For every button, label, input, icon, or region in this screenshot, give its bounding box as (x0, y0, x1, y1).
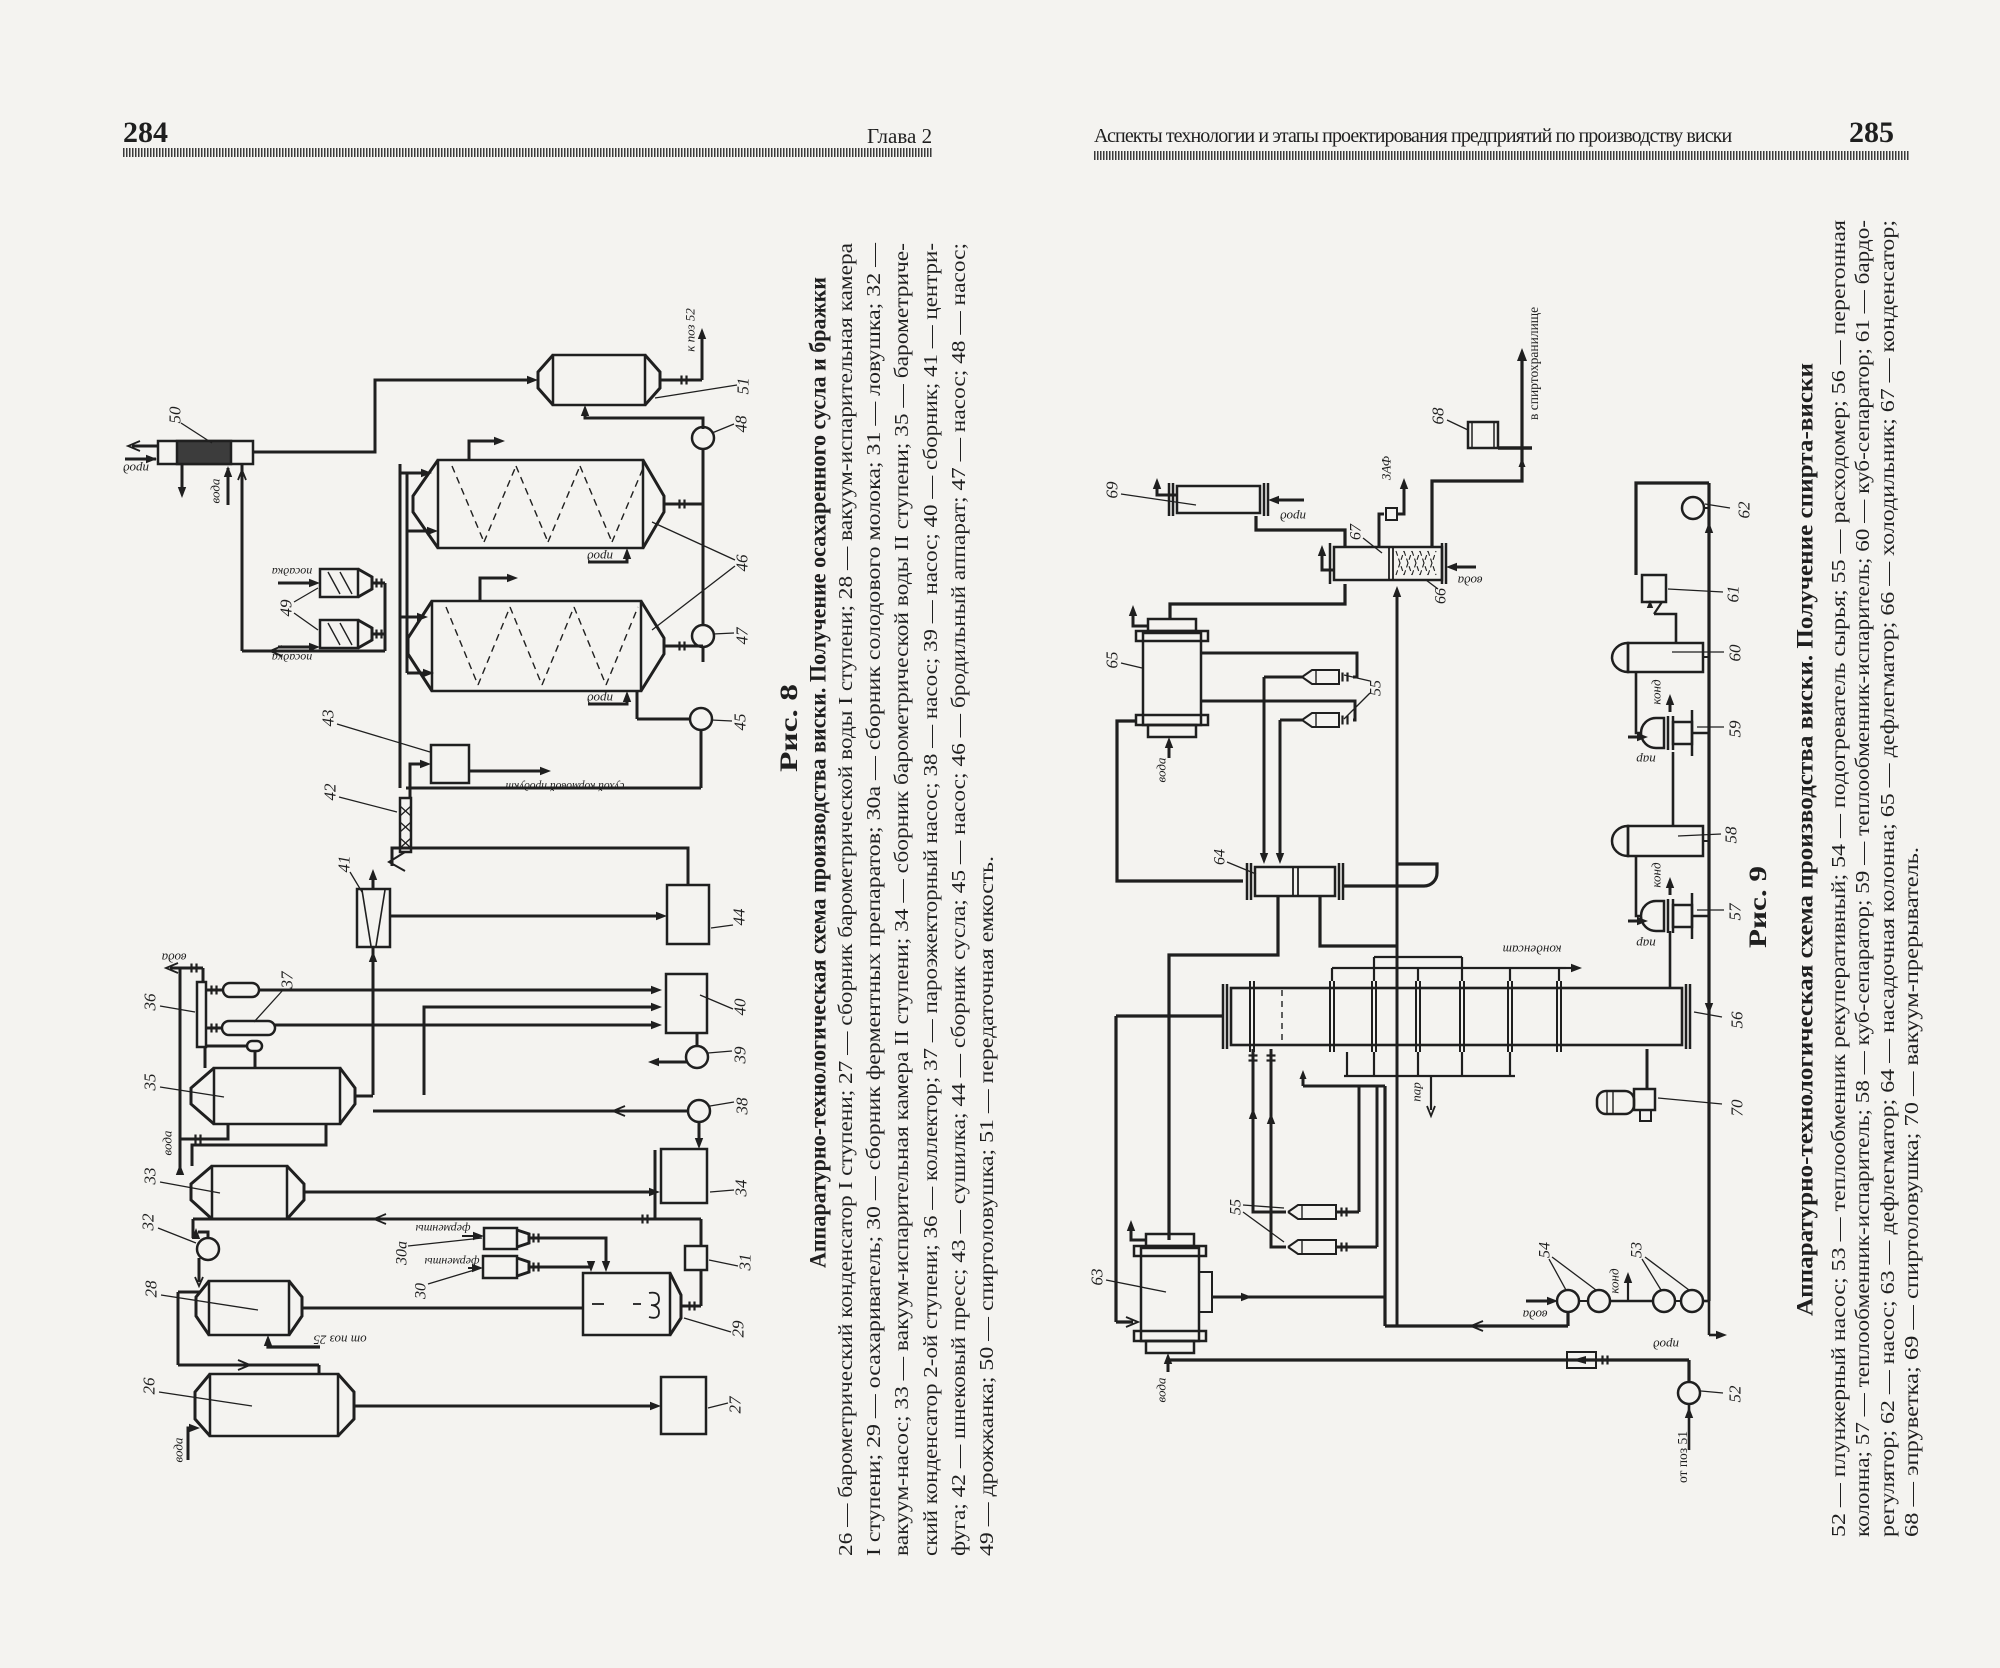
label 26 with leader (140, 1377, 253, 1406)
svg-text:53: 53 (1629, 1242, 1646, 1258)
svg-text:Рис. 9: Рис. 9 (1745, 866, 1772, 948)
meter outlets risers to reflux manifold (1300, 1070, 1386, 1252)
transfer vessel 51 (538, 355, 660, 405)
svg-text:40: 40 (731, 998, 750, 1016)
inlet line prod into 50 (125, 455, 157, 463)
label 45 with leader (711, 714, 750, 731)
label 35 with leader (141, 1074, 225, 1098)
outlet arrow to spirit storage (1517, 348, 1527, 448)
pump 47 (692, 625, 714, 647)
label 57 with leader (1697, 902, 1745, 921)
vent stub of upper drum 46 (469, 437, 505, 460)
enzyme label at 30a (416, 1222, 484, 1240)
svg-text:Рис. 8: Рис. 8 (776, 684, 803, 772)
wire 66 to test vessel 68 and to storage (1432, 448, 1526, 547)
label 27 with leader (708, 1395, 745, 1414)
dephlegmator 63 (1134, 1234, 1206, 1353)
vent arrow at top of 63 (1127, 1220, 1146, 1240)
sampling branch ZAF with valve (1379, 478, 1408, 547)
left manifold from 28 down to 26 (178, 1292, 319, 1374)
prod inlet of lower drum 46 (587, 691, 632, 707)
saccharifier 29 (583, 1273, 681, 1335)
svg-text:вода: вода (1522, 1308, 1547, 1323)
label 53 with leaders (1629, 1242, 1690, 1290)
wire 64 to dephlegmator 63 via riser (1169, 896, 1278, 1240)
svg-text:43: 43 (319, 710, 338, 727)
label 49 with leaders (277, 588, 319, 630)
svg-text:33: 33 (141, 1168, 160, 1186)
pump group 54 (1557, 1290, 1610, 1312)
svg-text:69: 69 (1103, 481, 1122, 499)
trap capsule 37 lower (205, 1021, 275, 1035)
page header right: page number 285 (1849, 116, 1894, 150)
reflux riser x1385 (1383, 1086, 1386, 1326)
wire vessel 35 outlet to riser (355, 1095, 373, 1098)
trap 31 (685, 1246, 707, 1270)
svg-text:52: 52 (1726, 1385, 1745, 1403)
wire upper drum 46 outlet to bus (664, 500, 703, 509)
pump 62 (1682, 497, 1713, 533)
label 39 with leader (708, 1046, 750, 1065)
enzyme dispenser 30 (483, 1256, 542, 1278)
drain of 35 to vessel 33 (192, 1124, 326, 1166)
wire 31 to transfer line (700, 1219, 703, 1246)
label 40 with leader (700, 995, 750, 1016)
water inlet arrow up into 50 (224, 466, 232, 505)
label 47 with leader (713, 626, 752, 645)
spirit trap 69 (1169, 483, 1268, 516)
dry feed product outlet of 43 (469, 767, 624, 793)
label 63 with leader (1088, 1269, 1167, 1293)
vacuum breaker 70 (1597, 1049, 1655, 1121)
wire 55a to 64 (1260, 677, 1302, 864)
svg-text:вакуум-насос; 33 — вакуум-испа: вакуум-насос; 33 — вакуум-испарительная … (891, 243, 913, 1556)
label 48 with leader (712, 415, 751, 433)
svg-text:26: 26 (140, 1377, 159, 1395)
svg-text:60: 60 (1726, 644, 1745, 662)
vacuum pump 32 (192, 1228, 219, 1286)
svg-text:56: 56 (1728, 1011, 1747, 1029)
fermenter 46 lower drum (408, 601, 664, 691)
wire lower drum 46 outlet to bus (664, 642, 703, 651)
svg-text:38: 38 (733, 1097, 752, 1116)
svg-text:29: 29 (729, 1320, 748, 1338)
inlet arrow into 69 right end (1268, 496, 1306, 525)
svg-text:63: 63 (1088, 1269, 1107, 1286)
right pump bus wire (637, 449, 703, 788)
stub from 41 up to press 42 (369, 869, 377, 889)
svg-text:вода: вода (208, 478, 223, 503)
svg-text:68: 68 (1429, 407, 1448, 425)
flow meter 55d (1288, 1240, 1336, 1254)
riser from column area up into 66 (1393, 586, 1401, 1326)
main product bus on the right (1705, 483, 1713, 1301)
still separator 58 (1612, 752, 1709, 856)
label 36 with leader (141, 993, 196, 1012)
yeast outlet bus to recycle line (384, 583, 387, 651)
svg-text:конденсат: конденсат (1503, 943, 1562, 958)
svg-text:Аппаратурно-технологическая сх: Аппаратурно-технологическая схема произв… (805, 277, 830, 1268)
outlet arrow left of 50 (128, 441, 158, 451)
vacuum chamber 33 (191, 1166, 304, 1219)
wire press 42 to dryer 43 (410, 760, 431, 798)
recycle line from fermenter area to 50 (242, 646, 385, 656)
svg-text:45: 45 (731, 714, 750, 731)
svg-text:конд: конд (1649, 679, 1664, 705)
label 60 with leader (1672, 644, 1745, 662)
svg-text:пар: пар (1636, 753, 1656, 768)
svg-text:55: 55 (1228, 1199, 1245, 1215)
water branch to vessel 35 (160, 1124, 229, 1155)
svg-text:35: 35 (141, 1074, 160, 1092)
stub 36 to vessel 35 (204, 1047, 207, 1068)
svg-text:42: 42 (321, 783, 340, 801)
wire 26 outlet to box 27 (354, 1402, 661, 1410)
label 55 upper pair with leaders (1344, 675, 1385, 719)
svg-text:47: 47 (733, 626, 752, 645)
packed column 64 (1247, 863, 1343, 900)
label 66 with leader (1426, 580, 1450, 604)
svg-text:вода: вода (171, 1437, 186, 1462)
label 70 with leader (1658, 1098, 1747, 1117)
svg-text:27: 27 (726, 1395, 745, 1414)
label 59 with leader (1697, 720, 1745, 738)
svg-text:конд: конд (1607, 1268, 1622, 1294)
wire pump 38 down into 34 (695, 1121, 703, 1149)
seed inlet into 49 lower (272, 643, 320, 665)
label 56 with leader (1694, 1011, 1747, 1029)
svg-text:в спиртохранилище: в спиртохранилище (1526, 307, 1541, 420)
label 32 with leader (139, 1213, 197, 1243)
svg-text:51: 51 (734, 378, 753, 395)
label 50 with leader (166, 406, 213, 443)
label 68 with leader (1429, 407, 1469, 430)
svg-text:48: 48 (732, 415, 751, 433)
transfer line under 34 (193, 1214, 701, 1224)
side box on 63 (1199, 1272, 1212, 1312)
svg-text:62: 62 (1735, 501, 1754, 519)
svg-text:пар: пар (1409, 1082, 1424, 1102)
column feed line down to preheater 63 (1116, 1016, 1223, 1327)
svg-text:ферменты: ферменты (425, 1255, 480, 1269)
wire 57 down into column 56 (1669, 931, 1672, 988)
svg-text:ферменты: ферменты (416, 1222, 471, 1236)
svg-text:31: 31 (736, 1254, 755, 1272)
svg-text:пар: пар (1636, 937, 1656, 952)
condenser 67 with cooler 66 (1330, 543, 1446, 584)
label 38 with leader (710, 1097, 752, 1116)
rotameter on bottom line (1567, 1352, 1608, 1368)
manifold inlet arrows into drums (400, 469, 438, 677)
drain arrow from pump 39 (648, 1058, 688, 1066)
svg-text:32: 32 (139, 1213, 158, 1232)
collector 36 feed from water main top (202, 968, 205, 982)
ejector fitting under 36 (205, 1041, 262, 1068)
pump group outlet to bus (1702, 1300, 1709, 1303)
label 42 with leader (321, 783, 398, 812)
svg-text:58: 58 (1722, 826, 1741, 844)
label 65 with leader (1103, 652, 1143, 669)
water main top outlet arrow (161, 951, 203, 974)
label 62 with leader (1705, 501, 1754, 519)
svg-text:вода: вода (160, 1130, 175, 1155)
label 67 with leader (1348, 523, 1383, 553)
label 52 with leader (1701, 1385, 1745, 1403)
label 31 with leader (709, 1254, 755, 1272)
svg-text:от поз 51: от поз 51 (1675, 1431, 1690, 1483)
vent arrow of 69 (1153, 478, 1177, 495)
screw press 42 (389, 798, 411, 871)
svg-text:прод: прод (587, 550, 613, 565)
svg-text:прод: прод (1280, 510, 1306, 525)
page header left: running title (867, 124, 932, 149)
water inlet into 65 bottom (1154, 737, 1174, 782)
label 33 with leader (141, 1168, 221, 1194)
wire capsule 37b to 40 (275, 1021, 662, 1029)
enzyme dispenser 30a (484, 1228, 542, 1249)
svg-text:конд: конд (1649, 862, 1664, 888)
label 34 with leader (710, 1179, 751, 1198)
svg-text:65: 65 (1103, 652, 1122, 669)
svg-text:прод: прод (123, 462, 149, 477)
svg-text:30: 30 (413, 1283, 430, 1300)
U-bend from 64 outlet to riser (1343, 864, 1437, 886)
steam inlet into 57 (1628, 917, 1656, 952)
wire 55b to 64 (1276, 720, 1302, 864)
svg-text:вода: вода (1457, 574, 1482, 589)
label 37 with leader (254, 970, 297, 1022)
label 55 lower pair with leaders (1228, 1199, 1285, 1242)
barda regulator 61 (1642, 575, 1676, 643)
svg-text:колонна; 57 — теплообменник-ис: колонна; 57 — теплообменник-испаритель; … (1852, 220, 1874, 1537)
page header left: hatched rule (123, 148, 932, 157)
wire 69 outlet down to condenser 67 (1256, 516, 1345, 547)
product outlet arrow (1653, 1301, 1727, 1353)
svg-text:37: 37 (278, 970, 297, 990)
wire 65 to flow meter 55a (1201, 653, 1357, 682)
vent arrow at top of 65 (1129, 605, 1148, 626)
wire from fermenter manifold to pump 45 (406, 787, 701, 790)
yeast vessel 49 lower (320, 620, 385, 648)
steam inlet into 59 (1628, 733, 1656, 768)
svg-text:вода: вода (161, 951, 186, 966)
drain arrow down from 50 (178, 464, 186, 498)
heat exchanger evaporator 57 (1636, 856, 1709, 939)
svg-text:Аппаратурно-технологическая сх: Аппаратурно-технологическая схема произв… (1792, 363, 1817, 1316)
svg-text:сухой кормовой продукт: сухой кормовой продукт (506, 780, 625, 793)
feed bottom line from pumps to riser (1385, 1312, 1568, 1331)
label 28 with leader (142, 1280, 259, 1310)
label 64 with leader (1212, 849, 1257, 874)
bus top to barda regulator 61 (1636, 483, 1709, 575)
water inlet into 26 (171, 1424, 201, 1463)
mash vessel 26 (195, 1374, 354, 1436)
steam headers below column (1344, 1052, 1515, 1116)
condensate outlet of 57 (1649, 862, 1675, 895)
svg-text:I ступени; 29 — осахариватель;: I ступени; 29 — осахариватель; 30 — сбор… (863, 242, 885, 1556)
dryer 43 (431, 745, 469, 783)
label 54 with leaders (1537, 1242, 1597, 1290)
svg-text:от поз 25: от поз 25 (313, 1333, 367, 1348)
feed line ot poz 25 into 28 (264, 1333, 367, 1348)
label 46 with leaders to both drums (652, 522, 752, 630)
svg-text:посадка: посадка (272, 651, 312, 665)
test vessel 68 (1468, 421, 1532, 449)
svg-text:вода: вода (1154, 757, 1169, 782)
svg-text:посадка: посадка (272, 565, 312, 579)
centrifuge 41 (357, 889, 390, 947)
svg-text:68 — эпруветка; 69 — спиртолов: 68 — эпруветка; 69 — спиртоловушка; 70 —… (1901, 847, 1923, 1537)
enzyme label at 30 (425, 1255, 483, 1272)
collector 40 (666, 974, 707, 1033)
seed inlet into 49 upper (272, 565, 320, 587)
svg-text:49: 49 (277, 599, 296, 617)
svg-text:к поз 52: к поз 52 (683, 308, 698, 352)
svg-text:57: 57 (1726, 902, 1745, 921)
svg-text:34: 34 (732, 1179, 751, 1198)
svg-text:прод: прод (587, 692, 613, 707)
svg-text:регулятор; 62 — насос; 63 — де: регулятор; 62 — насос; 63 — дефлегматор;… (1877, 220, 1899, 1537)
svg-text:30а: 30а (394, 1241, 411, 1266)
svg-text:50: 50 (166, 406, 185, 424)
suction line from vessel 35 to pump 38 (373, 1106, 689, 1116)
return riser from 50 down to recycle line (238, 464, 246, 651)
label 44 with leader (711, 908, 749, 928)
svg-text:54: 54 (1537, 1242, 1554, 1258)
condensate collectors above column (1332, 957, 1582, 981)
wire 30 into 29 (542, 1261, 595, 1272)
bottom water line to plunger pump 52 (1168, 1360, 1689, 1383)
water main (176, 968, 184, 1175)
svg-text:фуга; 42 — шнековый пресс; 43: фуга; 42 — шнековый пресс; 43 — сушилка;… (948, 243, 970, 1556)
condensate outlet of 59 (1649, 679, 1675, 712)
wire 64 second stub to main riser (1320, 896, 1397, 946)
water inlet into 66 (1446, 563, 1482, 589)
pump group 53 (1653, 1290, 1703, 1312)
label 41 with leader (335, 856, 363, 893)
svg-text:52 — плунжерный насос; 53 — те: 52 — плунжерный насос; 53 — теплообменни… (1828, 219, 1850, 1537)
svg-text:ский конденсатор 2-ой ступени;: ский конденсатор 2-ой ступени; 36 — колл… (920, 243, 942, 1556)
inlet riser into bottom of 51 from pump 48 (581, 405, 703, 429)
pump 48 (692, 427, 714, 449)
wire riser to 40 middle inlet (424, 1003, 662, 1095)
yeast vessel 49 upper (320, 569, 385, 597)
wire 41 outlet to collector 44 (390, 912, 667, 920)
plunger pump 52 (1678, 1382, 1700, 1450)
svg-text:36: 36 (141, 993, 160, 1012)
collector 36 (197, 982, 206, 1047)
svg-text:26 — барометрический конденсат: 26 — барометрический конденсатор I ступе… (835, 243, 857, 1556)
pump 45 (690, 708, 712, 730)
svg-text:39: 39 (731, 1046, 750, 1065)
riser from vessel 35 outlet up into 41 (369, 947, 377, 1095)
label 61 with leader (1668, 586, 1743, 603)
spirit trap 50 (158, 441, 253, 464)
svg-text:прод: прод (1653, 1338, 1679, 1353)
water inlet into 63 bottom (1154, 1353, 1173, 1402)
pump 38 (688, 1100, 710, 1122)
label 30 with leader (413, 1268, 482, 1300)
wire between pump groups with condensate outlet (1607, 1268, 1655, 1301)
svg-text:67: 67 (1348, 523, 1365, 540)
wire 50 to vessel 51 (253, 376, 538, 452)
collector 27 (661, 1377, 706, 1434)
wire 65 to flow meter 55b (1201, 701, 1355, 725)
wire 28 outlet to saccharifier 29 (302, 1307, 583, 1310)
distillation column 56 (1223, 981, 1690, 1052)
page header right: hatched rule (1094, 151, 1909, 160)
water inlet into pump group (1522, 1297, 1558, 1323)
fermenter 46 upper drum (413, 460, 664, 548)
wire 63 side outlet to reflux riser (1212, 1293, 1385, 1301)
label 69 with leader (1103, 481, 1197, 505)
trap capsule 37 upper (205, 983, 259, 997)
label 43 with leader (319, 710, 431, 753)
flow meter 55b (1302, 713, 1339, 727)
drain arrow left of 67 (1318, 545, 1334, 570)
outlet of 29 up through trap 31 (681, 1270, 701, 1311)
svg-text:59: 59 (1726, 720, 1745, 738)
pump 39 (686, 1033, 708, 1068)
wire 30a into 29 (542, 1238, 610, 1272)
svg-text:46: 46 (733, 554, 752, 572)
svg-text:66: 66 (1433, 588, 1450, 604)
wire 32 riser to transfer line (192, 1219, 195, 1238)
fermenter feed manifold (400, 464, 407, 788)
label 30a with leader (394, 1238, 483, 1266)
svg-text:вода: вода (1154, 1377, 1169, 1402)
svg-text:70: 70 (1728, 1099, 1747, 1117)
svg-text:41: 41 (335, 856, 354, 873)
dephlegmator 65 (1136, 619, 1208, 737)
heat exchanger evaporator 59 (1636, 672, 1709, 756)
label 29 with leader (684, 1318, 748, 1338)
vertical wire beside 34 (654, 1150, 657, 1219)
svg-text:44: 44 (730, 908, 749, 926)
collector 34 (661, 1149, 707, 1203)
flow meter 55a (1302, 670, 1339, 684)
svg-text:28: 28 (142, 1280, 161, 1298)
label 51 with leader (655, 378, 753, 399)
wort collector 44 (667, 885, 709, 944)
barometric condenser 35 (191, 1068, 355, 1124)
prod inlet of upper drum 46 (587, 548, 632, 565)
page header right: running title (1094, 125, 1731, 148)
wire 33 outlet to 34 (304, 1188, 660, 1196)
wire from press area over to top of 44 (392, 848, 688, 885)
page header left: page number 284 (123, 116, 168, 150)
flow meter 55c (1288, 1205, 1336, 1219)
vacuum chamber 28 (196, 1281, 302, 1335)
wire 65 top to condenser 67 (1170, 584, 1345, 619)
svg-text:49 — дрожжанка; 50 — спиртолов: 49 — дрожжанка; 50 — спиртоловушка; 51 —… (976, 856, 998, 1556)
svg-text:61: 61 (1724, 586, 1743, 603)
wire capsule 37a to 40 (259, 986, 662, 994)
label 58 with leader (1678, 826, 1741, 844)
outlet of 51 to pos 52 (660, 328, 706, 385)
svg-text:64: 64 (1212, 849, 1229, 865)
svg-text:ЗАФ: ЗАФ (1379, 455, 1394, 480)
reflux stubs from column bottom to meters (1249, 1049, 1287, 1247)
vent stub of lower drum 46 (480, 574, 518, 601)
cooling circuit 65 to packed column 64 (1117, 721, 1243, 881)
still separator 60 (1612, 643, 1709, 672)
